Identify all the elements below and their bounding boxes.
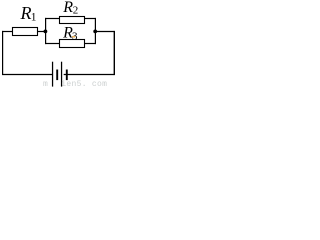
svg-text:R: R	[62, 0, 73, 16]
svg-text:ien5. com: ien5. com	[61, 80, 107, 88]
svg-text:m: m	[43, 80, 48, 88]
svg-text:3: 3	[72, 30, 78, 42]
svg-text:1: 1	[31, 11, 37, 23]
svg-text:R: R	[20, 3, 32, 23]
svg-text:2: 2	[73, 5, 79, 17]
